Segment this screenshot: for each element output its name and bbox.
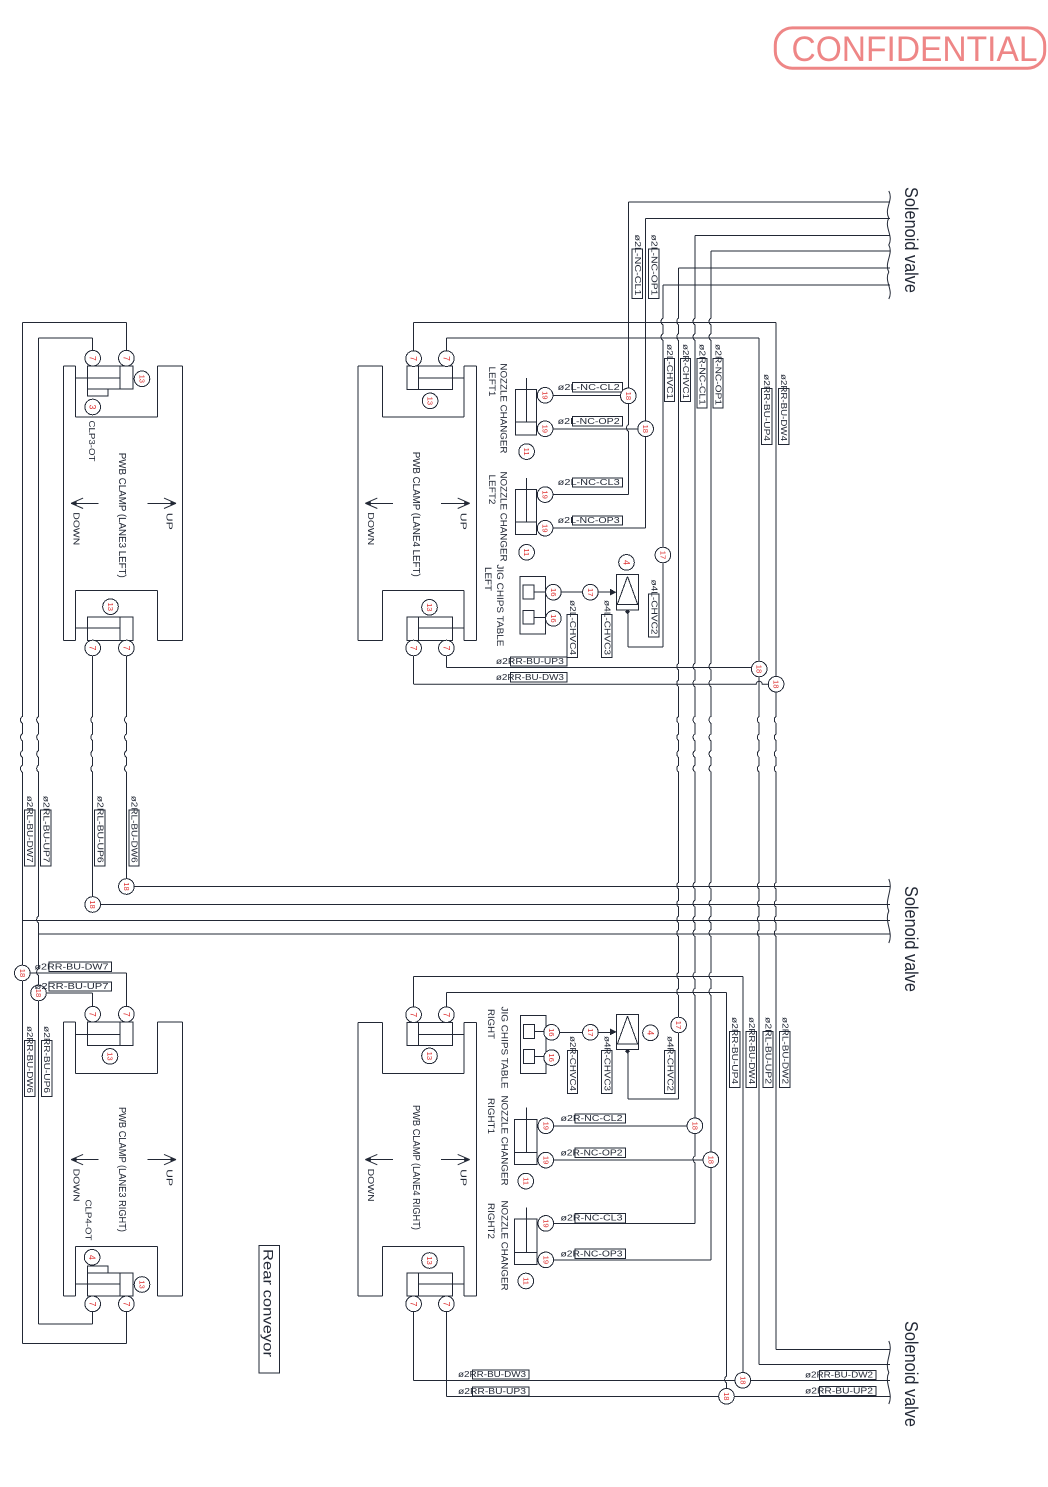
- svg-text:7: 7: [441, 356, 451, 361]
- svg-text:3: 3: [88, 405, 98, 410]
- svg-text:ø2RL-BU-DW2: ø2RL-BU-DW2: [780, 1017, 789, 1085]
- svg-text:NOZZLE CHANGER: NOZZLE CHANGER: [498, 363, 509, 453]
- svg-text:ø2L-NC-CL2: ø2L-NC-CL2: [558, 383, 621, 392]
- svg-text:ø2RR-BU-UP4: ø2RR-BU-UP4: [762, 374, 771, 442]
- svg-text:19: 19: [541, 1256, 550, 1264]
- svg-text:11: 11: [522, 448, 531, 456]
- svg-text:13: 13: [425, 603, 434, 611]
- svg-text:JIG CHIPS TABLE: JIG CHIPS TABLE: [494, 564, 505, 646]
- svg-text:PWB CLAMP (LANE4 RIGHT): PWB CLAMP (LANE4 RIGHT): [410, 1105, 421, 1230]
- svg-text:18: 18: [755, 665, 764, 673]
- svg-text:4: 4: [87, 1255, 97, 1260]
- svg-text:ø2RL-BU-DW6: ø2RL-BU-DW6: [130, 796, 139, 864]
- svg-text:ø2R-NC-CL3: ø2R-NC-CL3: [561, 1214, 624, 1223]
- svg-text:UP: UP: [458, 513, 467, 530]
- svg-text:ø2RL-BU-DW7: ø2RL-BU-DW7: [25, 796, 34, 864]
- svg-text:11: 11: [521, 1277, 530, 1285]
- svg-text:Rear conveyor: Rear conveyor: [261, 1249, 277, 1357]
- svg-text:13: 13: [106, 1052, 115, 1060]
- svg-text:7: 7: [409, 646, 419, 651]
- svg-text:PWB CLAMP (LANE3 LEFT): PWB CLAMP (LANE3 LEFT): [116, 453, 127, 578]
- svg-text:ø2R-NC-CL1: ø2R-NC-CL1: [698, 344, 707, 406]
- svg-text:DOWN: DOWN: [72, 512, 81, 545]
- svg-text:7: 7: [88, 646, 98, 651]
- svg-text:UP: UP: [165, 1169, 174, 1186]
- svg-text:ø4L-CHVC3: ø4L-CHVC3: [602, 600, 611, 656]
- svg-text:LEFT2: LEFT2: [486, 475, 497, 505]
- svg-text:7: 7: [121, 1012, 131, 1017]
- svg-text:18: 18: [738, 1376, 747, 1384]
- svg-text:13: 13: [106, 602, 115, 610]
- svg-text:18: 18: [722, 1392, 731, 1400]
- svg-text:ø2L-CHVC4: ø2L-CHVC4: [568, 600, 577, 656]
- svg-text:ø2R-NC-CL2: ø2R-NC-CL2: [561, 1114, 624, 1123]
- svg-text:19: 19: [541, 1122, 550, 1130]
- svg-text:7: 7: [441, 646, 451, 651]
- svg-text:ø2RR-BU-UP3: ø2RR-BU-UP3: [496, 657, 565, 666]
- svg-text:ø2RR-BU-DW4: ø2RR-BU-DW4: [779, 374, 788, 442]
- svg-text:RIGHT2: RIGHT2: [485, 1203, 496, 1239]
- svg-text:LEFT: LEFT: [482, 567, 493, 591]
- svg-text:ø2RR-BU-UP3: ø2RR-BU-UP3: [458, 1387, 527, 1396]
- svg-text:NOZZLE CHANGER: NOZZLE CHANGER: [498, 1096, 509, 1186]
- svg-text:17: 17: [586, 1028, 595, 1036]
- svg-text:18: 18: [18, 969, 27, 977]
- svg-text:19: 19: [541, 425, 550, 433]
- svg-text:18: 18: [624, 392, 633, 400]
- svg-text:CLP4-OT: CLP4-OT: [84, 1200, 94, 1241]
- svg-text:ø2RR-BU-UP2: ø2RR-BU-UP2: [805, 1386, 874, 1395]
- svg-text:ø2R-NC-OP1: ø2R-NC-OP1: [714, 344, 723, 406]
- svg-text:7: 7: [441, 1301, 451, 1306]
- svg-text:ø2RR-BU-UP7: ø2RR-BU-UP7: [35, 982, 110, 991]
- svg-text:JIG CHIPS TABLE: JIG CHIPS TABLE: [498, 1007, 509, 1089]
- svg-text:11: 11: [521, 1177, 530, 1185]
- svg-text:ø2R-NC-OP3: ø2R-NC-OP3: [561, 1249, 624, 1258]
- svg-text:16: 16: [549, 614, 558, 622]
- svg-text:7: 7: [121, 356, 131, 361]
- svg-text:Solenoid valve: Solenoid valve: [901, 886, 921, 992]
- svg-text:19: 19: [541, 391, 550, 399]
- svg-text:18: 18: [706, 1156, 715, 1164]
- svg-text:13: 13: [138, 375, 147, 383]
- svg-text:PWB CLAMP (LANE3 RIGHT): PWB CLAMP (LANE3 RIGHT): [116, 1107, 127, 1232]
- svg-text:ø2RR-BU-UP4: ø2RR-BU-UP4: [730, 1017, 739, 1085]
- svg-text:19: 19: [541, 1156, 550, 1164]
- svg-text:17: 17: [674, 1021, 683, 1029]
- svg-text:ø2L-NC-OP1: ø2L-NC-OP1: [649, 235, 658, 297]
- svg-text:ø2L-NC-OP2: ø2L-NC-OP2: [558, 417, 621, 426]
- svg-text:ø2RL-BU-UP7: ø2RL-BU-UP7: [41, 796, 50, 864]
- svg-text:18: 18: [641, 425, 650, 433]
- svg-text:RIGHT1: RIGHT1: [485, 1098, 496, 1134]
- svg-text:ø2RL-BU-UP2: ø2RL-BU-UP2: [764, 1017, 773, 1085]
- svg-text:7: 7: [409, 1012, 419, 1017]
- svg-text:7: 7: [409, 356, 419, 361]
- svg-text:13: 13: [425, 1256, 434, 1264]
- svg-text:4: 4: [646, 1030, 656, 1035]
- svg-text:UP: UP: [458, 1169, 467, 1186]
- svg-text:Solenoid valve: Solenoid valve: [901, 187, 921, 293]
- svg-text:Solenoid valve: Solenoid valve: [901, 1321, 921, 1427]
- svg-text:CONFIDENTIAL: CONFIDENTIAL: [792, 30, 1038, 69]
- svg-text:18: 18: [772, 680, 781, 688]
- svg-text:ø2L-CHVC1: ø2L-CHVC1: [665, 344, 674, 400]
- svg-text:7: 7: [441, 1012, 451, 1017]
- svg-text:7: 7: [88, 1301, 98, 1306]
- svg-text:ø2RR-BU-DW6: ø2RR-BU-DW6: [25, 1026, 34, 1094]
- svg-text:16: 16: [547, 1028, 556, 1036]
- svg-text:13: 13: [426, 397, 435, 405]
- svg-text:ø2RR-BU-DW3: ø2RR-BU-DW3: [458, 1370, 527, 1379]
- svg-text:ø2L-NC-CL3: ø2L-NC-CL3: [558, 478, 621, 487]
- svg-text:ø4L-CHVC2: ø4L-CHVC2: [649, 580, 658, 636]
- svg-text:18: 18: [88, 900, 97, 908]
- svg-text:ø4R-CHVC3: ø4R-CHVC3: [602, 1036, 611, 1092]
- svg-text:7: 7: [121, 1301, 131, 1306]
- svg-text:DOWN: DOWN: [366, 512, 375, 545]
- svg-text:ø2RR-BU-DW2: ø2RR-BU-DW2: [805, 1371, 874, 1380]
- svg-text:19: 19: [541, 1219, 550, 1227]
- svg-text:ø2RR-BU-DW3: ø2RR-BU-DW3: [496, 673, 565, 682]
- svg-text:19: 19: [541, 490, 550, 498]
- svg-text:16: 16: [547, 1053, 556, 1061]
- svg-text:PWB CLAMP (LANE4 LEFT): PWB CLAMP (LANE4 LEFT): [410, 452, 421, 577]
- svg-text:13: 13: [425, 1052, 434, 1060]
- svg-text:17: 17: [658, 551, 667, 559]
- svg-text:ø2R-NC-OP2: ø2R-NC-OP2: [561, 1148, 624, 1157]
- svg-text:CLP3-OT: CLP3-OT: [87, 421, 97, 462]
- svg-text:ø2RR-BU-UP6: ø2RR-BU-UP6: [42, 1026, 51, 1094]
- svg-text:ø2L-NC-CL1: ø2L-NC-CL1: [633, 235, 642, 297]
- svg-text:7: 7: [121, 646, 131, 651]
- svg-text:LEFT1: LEFT1: [486, 367, 497, 397]
- svg-text:DOWN: DOWN: [366, 1169, 375, 1202]
- svg-text:18: 18: [690, 1122, 699, 1130]
- svg-text:ø2L-NC-OP3: ø2L-NC-OP3: [558, 516, 621, 525]
- svg-text:16: 16: [549, 588, 558, 596]
- svg-text:RIGHT: RIGHT: [485, 1009, 496, 1039]
- svg-text:ø2R-CHVC4: ø2R-CHVC4: [568, 1036, 577, 1092]
- svg-text:7: 7: [88, 1012, 98, 1017]
- svg-text:ø4R-CHVC2: ø4R-CHVC2: [665, 1036, 674, 1092]
- svg-text:ø2R-CHVC1: ø2R-CHVC1: [681, 344, 690, 400]
- svg-text:DOWN: DOWN: [72, 1169, 81, 1202]
- svg-text:7: 7: [409, 1301, 419, 1306]
- svg-text:ø2RL-BU-UP6: ø2RL-BU-UP6: [95, 796, 104, 864]
- svg-text:NOZZLE CHANGER: NOZZLE CHANGER: [498, 472, 509, 562]
- svg-text:13: 13: [138, 1280, 147, 1288]
- svg-text:7: 7: [88, 356, 98, 361]
- svg-text:NOZZLE CHANGER: NOZZLE CHANGER: [498, 1201, 509, 1291]
- svg-text:ø2RR-BU-DW4: ø2RR-BU-DW4: [747, 1017, 756, 1085]
- svg-text:4: 4: [622, 560, 632, 565]
- svg-text:18: 18: [122, 882, 131, 890]
- svg-text:ø2RR-BU-DW7: ø2RR-BU-DW7: [35, 962, 110, 971]
- svg-text:11: 11: [522, 548, 531, 556]
- svg-text:17: 17: [586, 588, 595, 596]
- svg-text:19: 19: [541, 524, 550, 532]
- svg-text:UP: UP: [165, 513, 174, 530]
